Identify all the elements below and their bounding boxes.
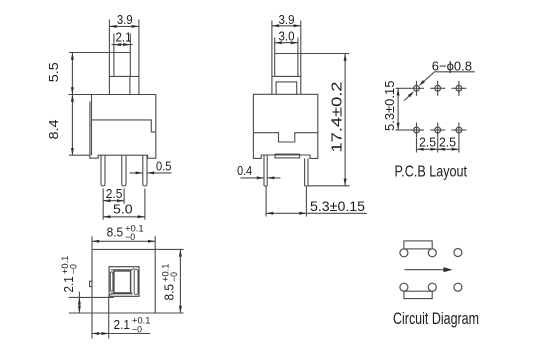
dimension 5.3 (pcb) vertical line and arrows bbox=[397, 88, 399, 130]
front view: body bottom edge extension left bbox=[69, 154, 90, 156]
top view: keycap right clip bbox=[134, 269, 138, 294]
svg-text:2.5: 2.5 bbox=[106, 186, 123, 201]
side view: plunger stem bbox=[275, 38, 350, 77]
svg-text:5.0: 5.0 bbox=[113, 202, 133, 217]
svg-text:8.5: 8.5 bbox=[162, 284, 177, 301]
top view: keycap plunger square bbox=[114, 271, 131, 293]
front view: body internal step line bbox=[92, 120, 156, 132]
svg-text:3.9: 3.9 bbox=[117, 12, 133, 27]
dimension 2.5 (pin pitch) line and arrows bbox=[103, 200, 124, 202]
dimension 2.1 (front view) extension lines bbox=[114, 34, 130, 53]
pcb hole 6 circle bbox=[456, 127, 462, 133]
svg-text:17.4±0.2: 17.4±0.2 bbox=[328, 82, 345, 153]
dimension 2.1 (front view) line and arrows bbox=[112, 44, 133, 46]
dimension 5.0 line and arrows bbox=[103, 216, 145, 218]
svg-text:5.5: 5.5 bbox=[46, 62, 61, 82]
svg-text:2.1: 2.1 bbox=[114, 317, 131, 332]
circuit: bottom contact middle bbox=[428, 283, 436, 291]
dimension 0.5 (pin width) line and arrows bbox=[130, 172, 172, 174]
svg-text:8.5: 8.5 bbox=[107, 225, 124, 240]
side view: collar key slot bbox=[276, 82, 297, 94]
front view: pin 2 bbox=[122, 155, 126, 186]
side view: body internal line with latch notch bbox=[253, 133, 317, 142]
top view: keycap outer square bbox=[109, 267, 139, 297]
pcb hole 4 cross bbox=[409, 129, 424, 131]
circuit: top contact left bbox=[400, 249, 408, 257]
dimension 5.5/8.4 vertical line bbox=[71, 53, 73, 156]
leader 6-dia0.8 underline bbox=[435, 71, 476, 73]
dimension 8.5 right (top view) extension lines bbox=[155, 312, 183, 314]
dimension label 8.5 +0.1 -0 (right, rotated) bbox=[160, 264, 179, 301]
dimension 8.5 top (top view) extension lines bbox=[92, 236, 155, 249]
top view: keycap bezel top line bbox=[111, 269, 133, 271]
pcb 2.5 dimension extension lines bbox=[417, 138, 459, 153]
pcb extension line top-left bbox=[396, 87, 410, 89]
side view: body bottom thin plate bbox=[275, 154, 300, 158]
dimension 3.9 (front view) line and arrows bbox=[109, 25, 138, 27]
pcb hole 1 circle bbox=[414, 85, 420, 91]
svg-text:2.5: 2.5 bbox=[419, 134, 436, 149]
side view: collar extension lines 3.9 bbox=[272, 21, 301, 77]
svg-text:P.C.B Layout: P.C.B Layout bbox=[395, 164, 468, 181]
svg-text:8.4: 8.4 bbox=[46, 120, 61, 140]
top view: left edge bump bbox=[90, 281, 92, 286]
leader 6-dia0.8 diagonal with arrows bbox=[420, 72, 434, 85]
svg-text:−0: −0 bbox=[169, 272, 179, 282]
dimension 2.1 left vertical line and arrows bbox=[78, 292, 80, 314]
svg-text:3.9: 3.9 bbox=[279, 12, 295, 27]
top view: outer square body bbox=[69, 249, 184, 313]
side view: body outline bbox=[253, 94, 317, 158]
svg-text:−0: −0 bbox=[69, 264, 79, 274]
pcb hole 2 cross bbox=[430, 87, 445, 89]
dimension label 2.1 +0.1 -0 (left, rotated) bbox=[60, 256, 79, 293]
pcb extension line bottom-left bbox=[396, 129, 410, 131]
side view: left pin bbox=[264, 155, 267, 186]
dimension 2.1 left (top view) extension line upper bbox=[69, 296, 114, 298]
svg-text:2.1: 2.1 bbox=[116, 29, 132, 44]
svg-text:−0: −0 bbox=[125, 232, 135, 242]
dimension 5.3 (side view) line and arrows bbox=[266, 212, 367, 214]
front view: plunger stem bbox=[69, 53, 130, 77]
pcb hole 5 cross bbox=[430, 129, 445, 131]
front view: pin 1 bbox=[101, 155, 105, 186]
dimension 2.5 (pin pitch) extension lines bbox=[103, 189, 124, 204]
svg-text:0.4: 0.4 bbox=[237, 163, 252, 178]
circuit: actuation arrow bbox=[404, 269, 445, 271]
circuit: bottom bridge rectangle bbox=[404, 291, 432, 298]
svg-text:5.3±0.15: 5.3±0.15 bbox=[310, 198, 365, 214]
dimension label 8.5 +0.1 -0 (top) bbox=[107, 223, 144, 242]
pcb hole 1 cross bbox=[409, 87, 424, 89]
dimension 17.4 extension line bottom bbox=[308, 185, 350, 187]
svg-text:6−ϕ0.8: 6−ϕ0.8 bbox=[432, 58, 472, 73]
circuit: top bridge rectangle bbox=[404, 241, 432, 249]
pcb hole 2 circle bbox=[435, 85, 441, 91]
dimension 0.4 (pin thickness) line and arrows bbox=[241, 177, 281, 179]
top view: keycap left clip bbox=[110, 272, 113, 291]
circuit: bottom contact left bbox=[400, 283, 408, 291]
dimension 8.5 top line and arrows bbox=[92, 240, 155, 242]
circuit: bottom contact right bbox=[454, 283, 462, 291]
dimension 17.4 vertical line and arrows bbox=[344, 54, 346, 186]
top view: corner tick bottom-left bbox=[110, 294, 112, 296]
side view: collar bbox=[272, 76, 301, 94]
svg-text:2.1: 2.1 bbox=[61, 276, 76, 293]
pcb hole 5 circle bbox=[435, 127, 441, 133]
dimension 5.3 (side view) extension lines bbox=[266, 187, 306, 217]
svg-text:2.5: 2.5 bbox=[439, 134, 456, 149]
pcb hole 3 circle bbox=[456, 85, 462, 91]
dimension 5.0 extension lines bbox=[103, 189, 145, 220]
dimension 8.5 right vertical line and arrows bbox=[179, 249, 181, 313]
dimension 2.1 bottom (top view) extension lines bbox=[92, 297, 109, 339]
svg-text:−0: −0 bbox=[132, 324, 142, 334]
pcb hole 4 circle bbox=[414, 127, 420, 133]
dimension 3.9 (side view) line and arrows bbox=[272, 25, 301, 27]
front view: pin 3 bbox=[143, 155, 147, 186]
svg-text:0.5: 0.5 bbox=[156, 159, 171, 174]
dimension 2.1 bottom line and arrows bbox=[92, 333, 150, 335]
dimension label 2.1 +0.1 -0 (bottom) bbox=[114, 316, 151, 335]
pcb 2.5 dimension lines and arrows bbox=[417, 148, 459, 150]
svg-text:Circuit Diagram: Circuit Diagram bbox=[393, 310, 479, 328]
dimension 3.0 (side view) line and arrows bbox=[275, 42, 298, 44]
top view: keycap bezel bottom line bbox=[111, 293, 133, 295]
top view: corner tick top-right bbox=[132, 268, 134, 270]
svg-text:3.0: 3.0 bbox=[279, 29, 295, 44]
circuit: top contact right bbox=[454, 249, 462, 257]
pcb hole 3 cross bbox=[451, 87, 466, 89]
circuit: top contact middle bbox=[428, 249, 436, 257]
svg-text:5.3±0.15: 5.3±0.15 bbox=[382, 81, 397, 132]
pcb hole 6 cross bbox=[451, 129, 466, 131]
front view: body outline bbox=[69, 95, 156, 159]
front view: plunger collar bbox=[109, 76, 138, 94]
dimension 3.9 (front view) extension lines bbox=[109, 20, 138, 77]
side view: right pin bbox=[305, 158, 308, 186]
